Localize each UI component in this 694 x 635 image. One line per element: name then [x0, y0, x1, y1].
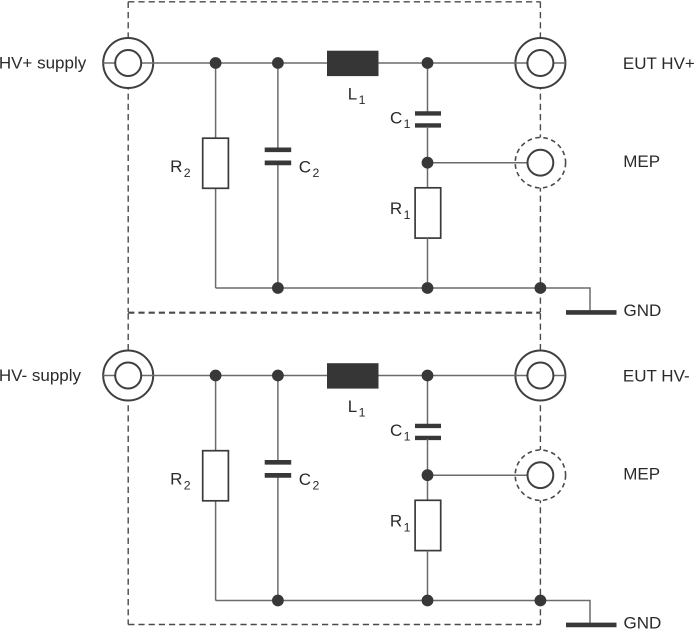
dashed enclosure box (top network): left edge	[127, 2, 129, 312]
svg-text:EUT HV+: EUT HV+	[623, 54, 694, 73]
terminal EUT HV-: inner contact	[527, 363, 553, 389]
wire: R2 branch (vertical)	[215, 63, 217, 288]
dashed enclosure box (bottom network): left edge	[127, 313, 129, 624]
wire: C1 to MEP node	[427, 439, 429, 475]
resistor R1	[415, 500, 441, 550]
dashed enclosure shared middle edge (bottom of top box / top of bottom box)	[128, 312, 540, 314]
svg-text:EUT HV-: EUT HV-	[623, 366, 690, 385]
ground symbol GND bar	[566, 310, 617, 315]
wire: C2 branch upper	[277, 63, 279, 150]
node: junction ground rail / enclosure	[535, 282, 547, 294]
wire: MEP tap (horizontal)	[428, 162, 529, 164]
node: junction C1 / R1 / MEP tap	[422, 157, 434, 169]
wire: C2 branch lower	[277, 163, 279, 288]
svg-text:GND: GND	[624, 301, 662, 320]
wire: C1 to MEP node	[427, 127, 429, 163]
node: junction main rail / C1	[422, 57, 434, 69]
wire: MEP node to R1	[427, 163, 429, 189]
node: junction ground rail / R1	[422, 595, 434, 607]
node: junction main rail / R2	[210, 57, 222, 69]
terminal HV+ supply: outer ring	[103, 38, 153, 88]
resistor R2	[203, 138, 229, 188]
ground symbol GND bar	[566, 623, 617, 628]
wire: MEP node to R1	[427, 475, 429, 501]
dashed enclosure box (bottom network): right edge	[539, 313, 541, 624]
terminal MEP: inner contact	[528, 462, 554, 488]
wire: R2 branch (vertical)	[215, 376, 217, 601]
wire: main horizontal HV- supply rail	[103, 375, 565, 377]
inductor L1 (ferrite body)	[327, 51, 379, 76]
capacitor C1: bottom plate	[415, 436, 441, 440]
terminal MEP: dashed outer ring	[515, 138, 565, 188]
terminal EUT HV+: outer ring	[515, 38, 565, 88]
svg-text:HV+ supply: HV+ supply	[0, 54, 87, 73]
capacitor C1: top plate	[415, 111, 441, 115]
wire: bottom ground rail	[216, 601, 590, 623]
wire: main horizontal HV+ supply rail	[103, 62, 565, 64]
wire: C1 branch from main rail	[427, 376, 429, 425]
wire: MEP tap (horizontal)	[428, 474, 529, 476]
node: junction C1 / R1 / MEP tap	[422, 469, 434, 481]
resistor R2	[203, 451, 229, 501]
capacitor C2: bottom plate	[265, 161, 292, 166]
terminal MEP: inner contact	[528, 150, 554, 176]
capacitor C2: top plate	[265, 147, 292, 152]
terminal HV+ supply: inner contact	[115, 50, 141, 76]
node: junction ground rail / R1	[422, 282, 434, 294]
terminal MEP: dashed outer ring	[515, 450, 565, 500]
node: junction main rail / C1	[422, 370, 434, 382]
svg-text:MEP: MEP	[623, 465, 660, 484]
dashed enclosure box (top network): right edge	[539, 2, 541, 312]
wire: R1 to ground rail	[427, 238, 429, 288]
svg-text:MEP: MEP	[623, 152, 660, 171]
node: junction ground rail / C2	[272, 282, 284, 294]
dashed enclosure box (bottom network): bottom edge	[128, 624, 540, 626]
wire: C2 branch lower	[277, 476, 279, 601]
capacitor C1: top plate	[415, 424, 441, 428]
svg-text:HV- supply: HV- supply	[0, 366, 82, 385]
dashed enclosure box (top network): top edge	[128, 1, 540, 3]
terminal HV- supply: inner contact	[115, 363, 141, 389]
node: junction ground rail / enclosure	[535, 595, 547, 607]
wire: C2 branch upper	[277, 376, 279, 463]
terminal HV- supply: outer ring	[103, 351, 153, 401]
svg-text:GND: GND	[624, 613, 662, 630]
inductor L1 (ferrite body)	[327, 363, 379, 388]
wire: R1 to ground rail	[427, 551, 429, 601]
capacitor C2: bottom plate	[265, 473, 292, 478]
terminal EUT HV-: outer ring	[515, 351, 565, 401]
capacitor C1: bottom plate	[415, 123, 441, 127]
node: junction main rail / C2	[272, 57, 284, 69]
node: junction main rail / C2	[272, 370, 284, 382]
node: junction ground rail / C2	[272, 595, 284, 607]
terminal EUT HV+: inner contact	[527, 50, 553, 76]
node: junction main rail / R2	[210, 370, 222, 382]
capacitor C2: top plate	[265, 460, 292, 465]
resistor R1	[415, 188, 441, 238]
wire: bottom ground rail	[216, 288, 590, 310]
wire: C1 branch from main rail	[427, 63, 429, 112]
